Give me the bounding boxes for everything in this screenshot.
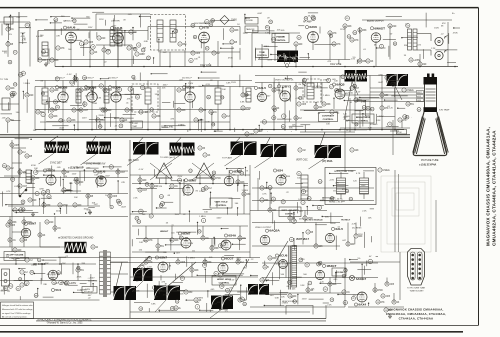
resistor R40 (75, 180, 84, 184)
photo leader line (395, 86, 402, 100)
flyback top stub (293, 238, 295, 246)
tube V9 6CB6 (182, 85, 195, 102)
svg-text:470K: 470K (228, 58, 233, 60)
resistor R48 (13, 208, 21, 212)
svg-text:470K: 470K (453, 32, 458, 34)
capacitor C57 (170, 184, 179, 188)
wire yoke feed 2 (398, 174, 400, 252)
svg-text:©Howard W. Sams & Co., Inc. 19: ©Howard W. Sams & Co., Inc. 1955 (47, 322, 84, 325)
svg-text:.005: .005 (390, 284, 395, 286)
IF transformer L6 (42, 88, 48, 104)
video IF detail cluster (33, 71, 249, 132)
label PHOTOFACT notation (36, 318, 92, 324)
resistor R12 (6, 118, 14, 122)
wire (355, 97, 416, 99)
svg-text:6AV6: 6AV6 (309, 25, 317, 29)
deflection yoke box (325, 168, 376, 205)
capacitor C64 (306, 230, 314, 234)
svg-text:CTA441AA, CTA442AA: CTA441AA, CTA442AA (399, 317, 434, 321)
waveform photo W16 (248, 284, 269, 295)
photo leader line (352, 82, 358, 96)
svg-text:.0047: .0047 (378, 82, 384, 84)
capacitor C71 (190, 268, 199, 272)
svg-text:-1.5V: -1.5V (205, 84, 211, 86)
capacitor C12 (343, 24, 352, 28)
resistor R10 (350, 38, 359, 42)
tube V20 6S4 (273, 169, 286, 186)
wire (91, 102, 93, 129)
tuner column detail cluster (1, 15, 32, 140)
svg-text:33K: 33K (273, 258, 278, 260)
svg-text:3.3K: 3.3K (94, 175, 99, 177)
resistor R62 (288, 216, 296, 220)
svg-text:150V: 150V (361, 185, 366, 187)
svg-text:470K: 470K (342, 189, 347, 191)
photo ref circle (285, 64, 289, 68)
svg-text:no signal. Use VTVM for readin: no signal. Use VTVM for readings. (2, 312, 31, 315)
audio output transformer secondary L5 (413, 29, 417, 50)
svg-text:4.7K: 4.7K (6, 191, 11, 193)
sound takeoff boxes (245, 18, 258, 33)
wire (147, 27, 149, 41)
svg-text:115V: 115V (88, 27, 93, 29)
svg-text:-1.5V: -1.5V (285, 100, 291, 102)
wire (255, 82, 330, 84)
wire (250, 306, 345, 308)
tube V14 6AU8 (93, 169, 106, 186)
resistor R37 (378, 168, 390, 172)
resistor R42 (28, 198, 37, 202)
svg-text:33K: 33K (182, 90, 187, 92)
svg-text:1 MEG: 1 MEG (314, 86, 321, 88)
capacitor C4 (84, 40, 94, 44)
photo leader (132, 281, 143, 292)
svg-text:Measured with 117 volts line v: Measured with 117 volts line voltage, (2, 308, 33, 311)
resistor R11 (358, 59, 367, 63)
resistor R43 (58, 203, 68, 207)
svg-text:2.2K: 2.2K (338, 93, 343, 95)
svg-text:5%: 5% (71, 86, 74, 88)
svg-text:150V: 150V (85, 96, 90, 98)
wire sync row (36, 170, 128, 172)
resistor R47 (18, 150, 27, 154)
svg-text:LIMITER: LIMITER (111, 21, 120, 23)
schematic top border (0, 7, 479, 9)
svg-text:1 MEG: 1 MEG (178, 125, 185, 127)
svg-text:47K: 47K (17, 17, 21, 19)
svg-text:5%: 5% (122, 121, 125, 123)
vert hold control (210, 198, 232, 208)
sound IF transformer L13 (117, 30, 122, 46)
svg-text:10K: 10K (362, 101, 366, 103)
capacitor C79 (373, 288, 383, 292)
svg-text:250 VDC F: 250 VDC F (182, 78, 193, 80)
capacitor C36 (380, 93, 389, 97)
capacitor C35 (354, 98, 362, 102)
svg-text:1K: 1K (397, 302, 400, 304)
wire (231, 46, 233, 67)
capacitor C29 (209, 110, 218, 114)
vertical block detail cluster (132, 167, 249, 255)
svg-text:10K: 10K (142, 214, 146, 216)
wire (130, 174, 250, 176)
svg-text:CONTROL: CONTROL (285, 214, 296, 216)
svg-text:.005: .005 (302, 104, 307, 106)
capacitor C70 (144, 260, 153, 264)
wire (62, 102, 64, 129)
capacitor C3 (56, 46, 65, 50)
capacitor C26 (139, 110, 149, 114)
capacitor C24 (103, 88, 113, 92)
capacitor C72 (236, 260, 245, 264)
svg-text:150V: 150V (434, 28, 439, 30)
audio output transformer primary L4 (408, 29, 412, 50)
svg-text:1 MEG: 1 MEG (23, 83, 30, 85)
wire (115, 87, 117, 92)
resistor R74 (381, 294, 391, 298)
svg-text:33K: 33K (81, 263, 85, 265)
svg-text:470K: 470K (31, 165, 36, 167)
tuner link terminal (2, 98, 10, 110)
wire tuner feed vertical (18, 12, 20, 196)
svg-text:10K: 10K (368, 218, 372, 220)
svg-text:4.7K: 4.7K (158, 290, 163, 292)
resistor R71 (306, 288, 314, 292)
wire (115, 102, 117, 129)
svg-text:5%: 5% (9, 34, 12, 36)
ratio det secondary L3 (170, 20, 176, 42)
antenna terminal block (4, 17, 13, 24)
resistor R75 (384, 308, 393, 312)
wire horiz row top (0, 257, 260, 259)
tube V6 6CB6 (55, 85, 68, 102)
svg-text:CMUA462AA, CTA440AA, CTA441AA,: CMUA462AA, CTA440AA, CTA441AA, CTA442AA (491, 130, 496, 246)
svg-text:PICTURE TUBE: PICTURE TUBE (421, 159, 439, 162)
svg-text:115V: 115V (143, 241, 148, 243)
svg-text:.005: .005 (15, 145, 20, 147)
svg-text:5%: 5% (11, 120, 14, 122)
svg-text:CONTROL: CONTROL (323, 119, 334, 121)
wire crt left vertical (392, 120, 394, 155)
power supply detail cluster (0, 256, 93, 300)
resistor R25 (241, 106, 251, 110)
svg-text:33K: 33K (404, 45, 408, 47)
lamp symbol (349, 275, 366, 281)
svg-text:220Ω: 220Ω (56, 209, 61, 212)
svg-text:1 MEG: 1 MEG (383, 170, 390, 172)
capacitor C41 (18, 170, 27, 174)
svg-text:5%: 5% (81, 270, 84, 272)
svg-text:-1.5V: -1.5V (229, 279, 235, 281)
wire (189, 87, 191, 92)
resistor R60 (314, 244, 323, 248)
yoke vertical winding (337, 172, 346, 199)
wire (96, 13, 150, 15)
capacitor C62 (238, 236, 247, 240)
resistor R33 (418, 62, 427, 66)
wire (250, 210, 327, 212)
svg-text:470K: 470K (39, 188, 44, 190)
svg-text:6.8K: 6.8K (203, 260, 208, 262)
svg-text:MAGNAVOX CHASSIS CMUA460AA,: MAGNAVOX CHASSIS CMUA460AA, (388, 308, 443, 312)
top strip right detail cluster (252, 13, 460, 64)
resistor R52 (150, 184, 159, 188)
tube V17 6EM7 (224, 170, 242, 186)
local-distance switch (19, 188, 27, 197)
svg-text:47K: 47K (56, 36, 60, 38)
svg-text:115V: 115V (72, 174, 77, 176)
svg-text:150V: 150V (231, 82, 236, 84)
svg-text:.0047: .0047 (105, 175, 111, 177)
capacitor C14 (388, 24, 397, 28)
resistor R13 (49, 114, 58, 118)
wire (34, 87, 36, 130)
sync coupling coil L16 (26, 170, 31, 183)
svg-text:ION TRAP: ION TRAP (439, 109, 450, 112)
svg-text:5%: 5% (192, 250, 195, 252)
svg-text:6.8K: 6.8K (257, 96, 262, 98)
resistor R65 (144, 272, 153, 276)
svg-text:6.8K: 6.8K (240, 102, 245, 104)
svg-text:33K: 33K (43, 60, 48, 62)
svg-text:6AX4: 6AX4 (358, 303, 366, 307)
resistor R49 (20, 238, 28, 242)
svg-text:6S4A: 6S4A (228, 234, 237, 238)
svg-text:TRAP: TRAP (132, 125, 138, 128)
4.5 MC trap box (131, 121, 143, 128)
horiz output detail cluster (264, 256, 378, 307)
svg-text:→+260V: →+260V (86, 278, 95, 280)
tube V8 6CB6 (108, 85, 121, 102)
resistor R5 (127, 46, 137, 50)
svg-text:3.3K: 3.3K (346, 120, 351, 122)
svg-text:CONTROL: CONTROL (275, 40, 286, 42)
svg-text:1 MEG: 1 MEG (262, 46, 269, 48)
wire (369, 88, 371, 130)
svg-text:115V: 115V (129, 122, 134, 124)
wire (29, 22, 31, 67)
waveform photo W12 (133, 268, 153, 281)
svg-text:TUBE SOCKET: TUBE SOCKET (410, 291, 425, 293)
integrator triangle symbols (156, 163, 212, 178)
tube V26 6CU6 (275, 254, 287, 269)
svg-text:6AQ5: 6AQ5 (336, 83, 344, 87)
svg-text:HV RECT: HV RECT (341, 220, 351, 222)
svg-text:1B3GT: 1B3GT (326, 264, 336, 268)
svg-text:150V: 150V (195, 302, 200, 304)
resistor R70 (268, 256, 277, 260)
svg-text:47K: 47K (403, 120, 408, 122)
svg-text:2 MEG: 2 MEG (407, 90, 414, 92)
svg-text:115V: 115V (155, 94, 160, 96)
svg-text:1 MEG: 1 MEG (323, 79, 330, 81)
video amp detail cluster (257, 72, 400, 132)
service note box (1, 302, 34, 319)
svg-text:1K: 1K (371, 61, 374, 63)
capacitor C37 (402, 88, 414, 92)
svg-text:(17) 6S4A: (17) 6S4A (322, 160, 333, 163)
capacitor C31 (241, 93, 250, 97)
svg-text:47K: 47K (335, 182, 339, 184)
waveform photo W4 (45, 142, 70, 154)
photo leader line (81, 154, 97, 165)
svg-text:3.3K: 3.3K (98, 178, 103, 180)
picture tube CRT 21YP4A (413, 74, 448, 156)
capacitor C59 (242, 192, 251, 196)
capacitor C76 (260, 278, 270, 282)
sound takeoff coil L1 (42, 42, 48, 56)
resistor R58 (260, 186, 269, 190)
capacitor C78 (288, 294, 297, 298)
svg-text:470K: 470K (397, 132, 402, 134)
photo leader line (255, 157, 271, 168)
wire (111, 261, 129, 263)
wire (70, 43, 72, 67)
resistor R72 (342, 290, 351, 294)
waveform photo W2 (345, 70, 368, 82)
svg-text:6AL5: 6AL5 (258, 86, 266, 90)
ground (44, 62, 48, 66)
wire (370, 91, 416, 93)
svg-text:33K: 33K (200, 120, 204, 122)
crt feed detail cluster (343, 82, 412, 127)
svg-text:115V: 115V (99, 19, 104, 21)
wire (375, 43, 377, 67)
wire (111, 291, 129, 293)
svg-text:CONTRAST: CONTRAST (322, 115, 335, 118)
svg-text:47K: 47K (381, 302, 386, 304)
waveform photo W11 (65, 242, 87, 253)
svg-text:10K: 10K (326, 123, 330, 125)
resistor R68 (184, 290, 193, 294)
svg-text:-1.5V: -1.5V (67, 74, 73, 76)
resistor R57 (210, 246, 219, 250)
svg-text:5%: 5% (353, 295, 356, 297)
svg-text:OGV LINE: OGV LINE (330, 63, 342, 66)
wire (8, 24, 10, 40)
svg-text:1K: 1K (277, 108, 280, 110)
svg-text:47K: 47K (127, 98, 131, 100)
svg-text:2.2K: 2.2K (431, 48, 436, 50)
capacitor C27 (177, 88, 186, 92)
capacitor C19 (36, 110, 44, 114)
svg-text:6.8K: 6.8K (226, 83, 231, 85)
svg-text:1K: 1K (125, 120, 128, 122)
4.5MC sound takeoff coil L10 (307, 83, 314, 99)
sound IF transformer L12 (110, 30, 115, 46)
capacitor C51 (91, 245, 99, 249)
svg-text:470K: 470K (370, 124, 375, 126)
capacitor C74 (174, 306, 182, 310)
wire plate run (38, 30, 148, 32)
tube V11 12BY7 (277, 84, 291, 101)
svg-text:3.3K: 3.3K (300, 285, 305, 287)
tube V1 6AU6 (63, 26, 76, 43)
svg-text:1K: 1K (95, 52, 98, 54)
svg-text:3.3K: 3.3K (376, 120, 381, 122)
svg-text:255V: 255V (299, 219, 304, 221)
horiz hold control (212, 276, 236, 285)
speaker SP2 (435, 50, 448, 60)
svg-text:6T8: 6T8 (203, 26, 209, 30)
svg-text:1K: 1K (43, 235, 46, 237)
rule riser (325, 305, 327, 319)
svg-text:470K: 470K (308, 218, 314, 220)
svg-text:2.2K: 2.2K (320, 200, 325, 202)
svg-text:.047: .047 (84, 110, 89, 112)
svg-text:.0047: .0047 (236, 258, 242, 260)
svg-text:.0047: .0047 (162, 84, 168, 86)
svg-text:5%: 5% (84, 90, 87, 92)
wire (91, 87, 93, 92)
svg-text:.005: .005 (11, 225, 16, 227)
svg-text:115V: 115V (286, 263, 291, 265)
svg-text:47K: 47K (337, 44, 342, 46)
svg-text:10K: 10K (175, 240, 180, 242)
svg-text:10K: 10K (222, 89, 226, 91)
svg-text:TAKEOFF: TAKEOFF (246, 28, 255, 31)
svg-text:220Ω: 220Ω (92, 102, 97, 105)
svg-text:47K: 47K (327, 61, 331, 63)
tube V16 6EM7 (183, 178, 197, 195)
svg-text:10K: 10K (54, 116, 59, 118)
resistor R26 (272, 88, 281, 92)
extra wiring runs (0, 20, 452, 307)
capacitor C54 (6, 223, 16, 227)
resistor R41 (108, 194, 118, 198)
svg-text:470K: 470K (216, 178, 222, 180)
capacitor C10 (230, 28, 239, 32)
waveform photo W14 (154, 286, 180, 301)
capacitor C80 (385, 282, 395, 286)
wire (0, 299, 100, 301)
resistor R73 (376, 300, 385, 304)
capacitor C69 (76, 268, 84, 272)
vert output choke L11 (301, 175, 308, 199)
resistor R22 (194, 118, 203, 122)
wire (203, 43, 205, 67)
resistor R69 (238, 298, 247, 302)
svg-text:255V: 255V (302, 298, 307, 300)
capacitor C28 (199, 108, 207, 112)
capacitor C47 (73, 203, 82, 207)
svg-text:47K: 47K (170, 119, 174, 121)
resistor R55 (144, 238, 153, 242)
svg-text:10K: 10K (34, 168, 38, 170)
capacitor C67 (20, 270, 29, 274)
capacitor C9 (212, 51, 221, 55)
waveform photo W3 (387, 74, 409, 86)
svg-text:CMUA461AA, CMUA462AA, CTA440AA: CMUA461AA, CMUA462AA, CTA440AA, (386, 312, 446, 316)
long vertical run (129, 140, 131, 318)
tube V13 6BE6 (43, 169, 56, 186)
sound takeoff shield (303, 79, 321, 102)
svg-text:6.8K: 6.8K (144, 41, 149, 43)
svg-text:TO GRID (pin 2): TO GRID (pin 2) (160, 157, 175, 159)
svg-text:TO PICTURE TUBE: TO PICTURE TUBE (407, 288, 426, 290)
svg-text:4.7K: 4.7K (22, 40, 27, 42)
svg-text:(13) 6AU8: (13) 6AU8 (128, 159, 139, 162)
svg-text:3.3K: 3.3K (97, 97, 102, 99)
svg-text:.005: .005 (89, 42, 94, 44)
svg-text:255V: 255V (49, 278, 54, 280)
photo leader (210, 309, 222, 318)
resistor R39 (62, 170, 70, 174)
tube V18 6EM7 (178, 232, 191, 249)
wire (370, 87, 424, 89)
svg-text:.047: .047 (121, 172, 126, 174)
ground (31, 212, 35, 216)
